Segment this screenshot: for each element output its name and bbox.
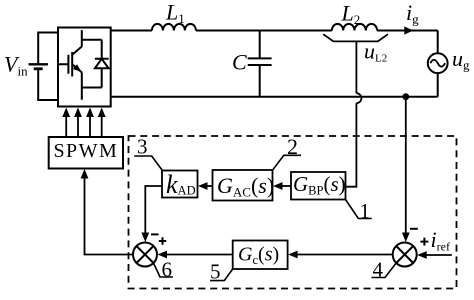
svg-text:Gc(s): Gc(s) [238, 244, 279, 268]
svg-text:3: 3 [137, 134, 148, 158]
svg-text:5: 5 [210, 260, 221, 284]
svg-text:ig: ig [406, 0, 419, 27]
svg-text:GBP(s): GBP(s) [293, 172, 346, 198]
svg-text:L1: L1 [165, 0, 185, 26]
svg-text:ug: ug [452, 46, 470, 73]
svg-text:4: 4 [373, 258, 384, 282]
svg-text:Vin: Vin [4, 51, 28, 78]
svg-text:GAC(s): GAC(s) [217, 173, 274, 200]
svg-text:uL2: uL2 [364, 39, 387, 65]
svg-text:2: 2 [287, 134, 298, 159]
svg-text:L2: L2 [341, 1, 361, 28]
svg-text:C: C [232, 49, 247, 74]
svg-text:6: 6 [162, 258, 173, 282]
svg-text:kAD: kAD [166, 170, 196, 199]
svg-text:SPWM: SPWM [53, 140, 118, 162]
svg-text:iref: iref [431, 227, 450, 254]
svg-text:1: 1 [360, 199, 371, 223]
